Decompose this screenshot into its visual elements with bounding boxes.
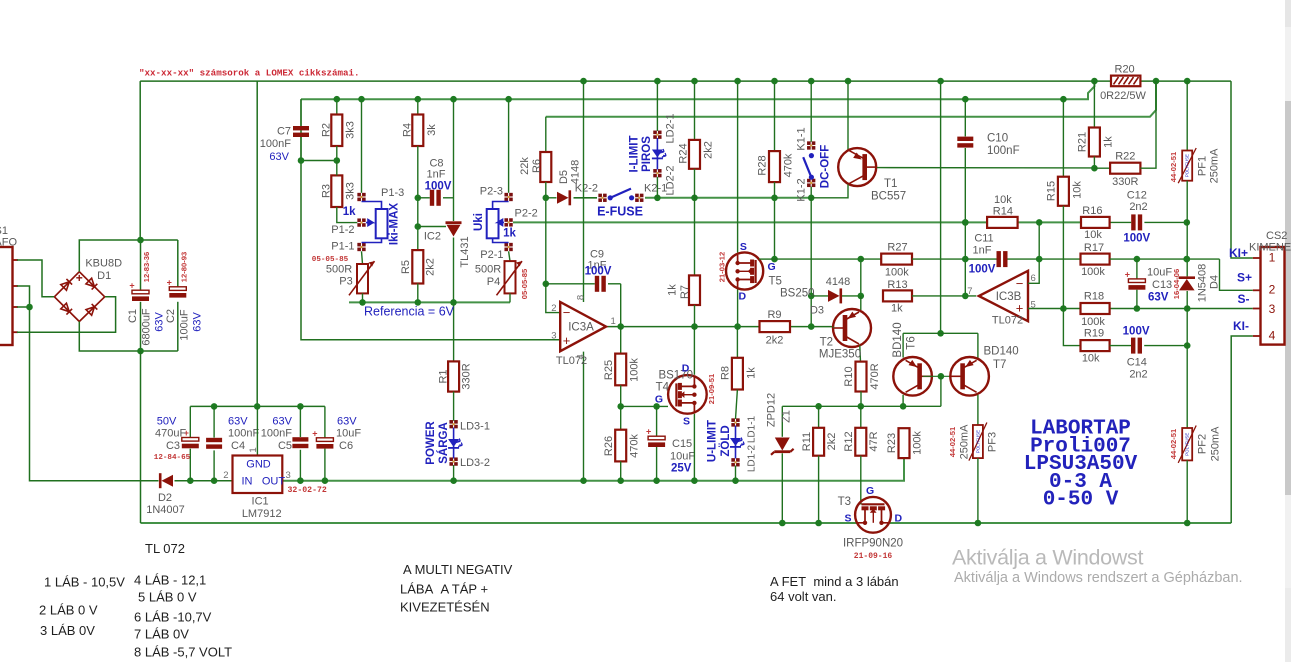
svg-text:KBU8D: KBU8D [85,258,122,270]
svg-text:500R: 500R [326,264,352,276]
svg-text:G: G [768,261,776,273]
svg-text:T1: T1 [884,178,897,190]
svg-text:3: 3 [551,331,556,342]
svg-text:R5: R5 [400,260,412,274]
svg-text:21-09-16: 21-09-16 [854,552,893,561]
svg-text:R19: R19 [1084,328,1104,340]
svg-text:21-09-51: 21-09-51 [707,373,716,404]
trimmer P4 500R [475,251,529,302]
svg-text:250mA: 250mA [1208,148,1220,184]
svg-text:IN: IN [242,476,253,488]
note FET 64 volt [770,574,899,604]
svg-text:T6: T6 [906,336,918,349]
wire top positive bus y=81 [140,81,1253,258]
resistor R18 100k [1081,291,1110,329]
capacitor C13 10uF [1125,259,1181,308]
svg-text:LÁBA A TÁP +: LÁBA A TÁP + [400,582,488,597]
svg-text:3: 3 [1269,302,1276,316]
note multi negativ [400,562,513,615]
capacitor C5 100nF [261,406,309,480]
svg-text:R17: R17 [1084,242,1104,254]
svg-text:T7: T7 [993,359,1006,371]
svg-text:32-02-72: 32-02-72 [288,486,327,495]
resistor R26 470k [603,385,641,484]
capacitor C14 2n2 [1123,326,1191,381]
svg-text:+: + [76,271,83,285]
svg-text:3 LÁB 0V: 3 LÁB 0V [40,623,95,638]
svg-text:7: 7 [967,286,972,297]
svg-text:3: 3 [286,470,291,481]
svg-text:R10: R10 [843,366,855,386]
svg-text:C12: C12 [1127,190,1147,202]
svg-text:PF2: PF2 [1196,434,1208,454]
svg-text:1 LÁB - 10,5V: 1 LÁB - 10,5V [44,575,125,590]
svg-text:A MULTI NEGATIV: A MULTI NEGATIV [403,562,513,577]
wire Uki line y=222.4 [513,221,1187,223]
svg-text:T2: T2 [820,337,833,349]
svg-text:100nF: 100nF [228,427,259,439]
svg-text:I-LIMIT: I-LIMIT [629,135,641,172]
svg-text:63V: 63V [153,312,165,332]
svg-text:C4: C4 [231,440,245,452]
svg-text:POLYFUSE: POLYFUSE [1185,154,1190,177]
capacitor C12 2n2 [1123,190,1190,245]
svg-text:100V: 100V [1123,326,1150,338]
svg-text:S+: S+ [1237,271,1252,285]
svg-text:R9: R9 [767,309,781,321]
svg-text:8 LÁB -5,7 VOLT: 8 LÁB -5,7 VOLT [134,645,232,660]
svg-text:Z1: Z1 [780,410,792,423]
capacitor C15 10uF [646,406,695,484]
svg-text:4: 4 [575,354,586,359]
svg-text:12-84-65: 12-84-65 [154,454,191,462]
svg-text:+: + [646,427,651,437]
svg-text:POWER: POWER [425,421,437,465]
note LOMEX red [139,68,360,79]
wire minus-12V rail y=480.7 [282,458,904,481]
svg-text:5 LÁB 0 V: 5 LÁB 0 V [138,590,197,605]
svg-text:IC3B: IC3B [996,291,1022,303]
svg-text:S: S [683,416,690,428]
svg-text:1k: 1k [666,284,678,296]
shunt regulator IC2 TL431 [418,96,471,306]
resistor R13 1k [883,279,976,315]
resistor R10 470R [843,362,881,407]
scrollbar track right edge [1285,0,1291,662]
wire CS1 pin3 junction to D2 line [17,304,159,481]
fuse PF3 250mA [948,423,998,527]
svg-text:P2-1: P2-1 [480,249,503,261]
svg-text:P1-3: P1-3 [381,187,404,199]
svg-text:6800uF: 6800uF [140,308,152,346]
svg-text:D3: D3 [810,305,824,317]
svg-text:R15: R15 [1045,181,1057,201]
wire reference rail [349,301,510,303]
svg-text:8: 8 [575,295,586,300]
svg-text:S: S [740,241,747,253]
svg-text:S-: S- [1238,292,1250,306]
zener Z1 ZPD12 [765,393,793,526]
capacitor C11 1nF [969,233,1081,276]
svg-text:LM7912: LM7912 [242,508,282,520]
svg-text:10uF: 10uF [336,427,361,439]
svg-text:P1-2: P1-2 [331,224,354,236]
diode D5 4148 [557,160,581,206]
wire negative drop x=140.5 [140,351,142,523]
svg-text:R11: R11 [801,432,813,451]
svg-text:LD3-2: LD3-2 [460,457,490,469]
svg-text:+: + [1125,269,1130,279]
potentiometer P1 1k Iki-MAX [312,187,404,264]
svg-text:KIMENET: KIMENET [1249,242,1291,254]
svg-text:2k2: 2k2 [766,335,784,347]
svg-text:100nF: 100nF [987,145,1020,157]
svg-text:R21: R21 [1076,132,1088,152]
svg-text:POLYFUSE: POLYFUSE [975,430,980,453]
svg-text:3k3: 3k3 [345,182,357,200]
wire IC1 GND riser x=257 [256,81,258,406]
wire P1 top feed [358,96,365,193]
svg-text:C14: C14 [1127,357,1147,369]
svg-text:1nF: 1nF [427,169,446,181]
svg-text:100k: 100k [1081,266,1105,278]
resistor R20 0R22/5W [1091,64,1190,103]
svg-text:Referencia = 6V: Referencia = 6V [364,305,455,319]
wire IC3B pin6 [1028,219,1042,283]
svg-text:47R: 47R [868,431,880,451]
svg-text:44-02-51: 44-02-51 [948,426,957,457]
svg-text:2 LÁB 0 V: 2 LÁB 0 V [39,603,98,618]
svg-text:R16: R16 [1082,205,1102,217]
wire AC input drop x=140 [139,81,141,240]
potentiometer P2 1k Uki [473,186,538,262]
svg-text:10k: 10k [994,194,1012,206]
resistor R12 47R [843,406,880,504]
wire T5 gate line [775,258,861,260]
svg-text:+: + [129,281,134,291]
svg-text:IC2: IC2 [424,231,441,243]
svg-text:63V: 63V [269,151,289,163]
svg-text:22k: 22k [519,157,531,175]
svg-text:1k: 1k [891,303,903,315]
svg-text:Aktiválja a Windowst: Aktiválja a Windowst [952,546,1143,570]
capacitor C2 100uF [165,252,204,341]
svg-text:BD140: BD140 [984,346,1019,358]
svg-text:Iki-MAX: Iki-MAX [389,203,401,246]
svg-text:10k: 10k [1071,181,1083,199]
resistor R14 10k [962,194,1018,228]
svg-text:2: 2 [551,303,556,314]
capacitor C9 1nF [546,249,621,327]
resistor R7 1k [666,198,700,330]
svg-text:LD2-2: LD2-2 [664,166,676,196]
transistor T3 IRFP90N20 [838,485,903,561]
svg-text:1: 1 [248,447,259,452]
svg-text:R6: R6 [531,159,543,173]
svg-text:100k: 100k [911,431,923,455]
wire E-FUSE line y=197.8 [546,197,811,199]
svg-text:P3: P3 [339,276,352,288]
wire CS1 pin1 to bridge AC1 [17,260,54,297]
svg-text:GND: GND [246,459,271,471]
svg-text:P2-3: P2-3 [480,186,503,198]
svg-text:1nF: 1nF [973,245,992,257]
resistor R17 100k [1081,242,1253,290]
svg-text:R28: R28 [756,155,768,175]
svg-text:100V: 100V [585,266,612,278]
svg-text:1k: 1k [1102,136,1114,148]
svg-text:6 LÁB -10,7V: 6 LÁB -10,7V [134,610,212,625]
svg-text:2n2: 2n2 [1129,369,1147,381]
svg-text:64 volt van.: 64 volt van. [770,589,837,604]
capacitor C10 100nF [957,96,1019,299]
resistor R27 100k [861,242,997,279]
svg-text:−: − [1016,276,1024,291]
transistor T5 BS250 [718,78,815,330]
wire CS1 pin2 [17,286,30,307]
resistor R16 10k [1081,205,1110,241]
svg-text:50V: 50V [157,416,177,428]
svg-text:R22: R22 [1115,151,1135,163]
svg-text:44-02-51: 44-02-51 [1169,428,1178,459]
svg-text:ZPD12: ZPD12 [765,393,777,427]
wire C3-C6 top rail [190,403,325,410]
transistor T6 BD140 [892,322,959,406]
resistor R4 3k [401,96,438,250]
svg-text:IRFP90N20: IRFP90N20 [843,538,903,550]
wire D2 to IC1 IN [175,477,233,484]
svg-text:470R: 470R [869,363,881,389]
svg-text:2: 2 [1269,283,1276,297]
resistor R24 2k2 [677,78,714,198]
LED LD3 POWER [425,392,490,484]
svg-text:10uF: 10uF [670,451,695,463]
svg-text:63V: 63V [191,312,203,332]
svg-text:+: + [312,428,317,438]
svg-text:05-05-85: 05-05-85 [520,268,529,299]
svg-text:PF3: PF3 [986,432,998,452]
svg-text:BS250: BS250 [780,288,815,300]
resistor R25 100k [603,327,641,386]
svg-text:2k2: 2k2 [702,141,714,159]
svg-text:S: S [844,513,851,525]
svg-text:63V: 63V [228,416,248,428]
op-amp IC3B TL072 [967,271,1036,327]
svg-text:C5: C5 [278,440,292,452]
svg-text:R2: R2 [320,123,332,137]
svg-text:4148: 4148 [569,160,581,184]
switch K2 E-FUSE [575,183,698,219]
wire bottom negative rail y=523 [141,522,1232,524]
svg-text:KI+: KI+ [1229,246,1248,260]
svg-text:1k: 1k [343,206,356,218]
svg-text:1N4007: 1N4007 [146,504,185,516]
svg-text:R26: R26 [603,436,615,456]
resistor R1 330R [438,302,473,391]
wire bridge minus rail y=351 [79,302,178,355]
label Referencia [364,305,455,319]
svg-text:16-04-06: 16-04-06 [1172,269,1181,299]
svg-text:R3: R3 [320,184,332,198]
svg-text:1k: 1k [503,228,516,240]
svg-text:4148: 4148 [826,276,850,288]
wire bus y=99 [301,81,1094,99]
svg-text:TL072: TL072 [992,315,1023,327]
svg-text:100V: 100V [1123,233,1150,245]
capacitor C3 470uF [154,406,199,480]
svg-text:R25: R25 [603,360,615,380]
capacitor C8 1nF [418,158,454,206]
svg-text:+: + [167,277,172,287]
svg-text:R13: R13 [887,279,907,291]
svg-text:470k: 470k [628,434,640,458]
diode D4 1N5408 [1179,222,1221,345]
svg-text:D: D [682,363,690,375]
svg-text:TL 072: TL 072 [145,541,185,556]
resistor R23 100k [886,428,924,458]
svg-text:1: 1 [611,316,616,327]
svg-text:470uF: 470uF [155,427,186,439]
wire inv input column [543,195,561,313]
svg-text:12-83-36: 12-83-36 [142,252,151,282]
svg-text:R24: R24 [677,143,689,163]
svg-text:LD1-1: LD1-1 [747,415,758,443]
svg-text:3k: 3k [426,124,438,136]
regulator IC1 LM7912 [223,406,327,520]
wire S- line [1028,305,1253,312]
svg-text:G: G [866,485,874,497]
svg-text:470k: 470k [782,153,794,177]
svg-text:T5: T5 [769,276,782,288]
svg-text:P4: P4 [487,276,500,288]
svg-text:POLYFUSE: POLYFUSE [1185,433,1190,456]
svg-text:SÁRGA: SÁRGA [437,422,450,464]
switch K1 DC-OFF [795,78,831,202]
resistor R5 2k2 [400,250,437,306]
svg-text:330R: 330R [1112,176,1138,188]
wire P2 top feed [505,96,512,193]
svg-text:4: 4 [1269,329,1276,343]
svg-text:R18: R18 [1084,291,1104,303]
svg-text:−: − [563,305,571,320]
capacitor C1 6800uF [127,252,166,346]
svg-text:330R: 330R [461,363,473,389]
wire IC3A plus input from x=301 [301,99,560,340]
svg-text:R4: R4 [401,123,413,137]
svg-text:10k: 10k [1082,353,1100,365]
svg-text:1k: 1k [745,367,757,379]
svg-text:44-02-51: 44-02-51 [1169,151,1178,182]
svg-text:G: G [655,394,663,406]
svg-text:LD1-2: LD1-2 [747,444,758,472]
svg-text:CS1: CS1 [0,225,8,237]
fuse PF1 250mA [1169,81,1220,222]
svg-text:100k: 100k [885,267,909,279]
svg-text:LD3-1: LD3-1 [460,421,490,433]
wire bridge plus to C1 C2 top [79,237,178,290]
transistor T1 BC557 [812,78,1094,203]
svg-text:BD140: BD140 [892,322,904,357]
svg-text:25V: 25V [671,463,692,475]
svg-text:0-50 V: 0-50 V [1043,489,1119,512]
svg-text:R14: R14 [993,206,1013,218]
capacitor C4 100nF [206,406,259,480]
svg-text:10k: 10k [1084,229,1102,241]
diode D3 4148 [810,276,861,317]
svg-text:K2-2: K2-2 [575,183,598,195]
wire sense line y=116.7 [546,81,1156,117]
svg-text:C10: C10 [987,133,1008,145]
svg-text:C15: C15 [672,438,692,450]
resistor R19 10k [1063,309,1131,365]
resistor R2 3k3 [320,96,356,164]
wire gate line T4 [621,403,668,410]
svg-text:C1: C1 [127,309,139,323]
svg-text:R8: R8 [719,366,731,380]
resistor R28 470k [756,78,794,263]
svg-text:R7: R7 [679,285,691,299]
svg-text:"xx-xx-xx" számsorok a LOMEX c: "xx-xx-xx" számsorok a LOMEX cikkszámai. [139,68,360,79]
svg-text:2: 2 [223,470,228,481]
svg-text:A FET mind a 3 lábán: A FET mind a 3 lábán [770,574,899,589]
svg-text:250mA: 250mA [1209,426,1221,462]
resistor R8 1k [719,327,757,390]
wire K1 node down to D3/R9 [808,198,815,330]
svg-text:1N5408: 1N5408 [1196,264,1208,303]
svg-text:R23: R23 [886,433,898,453]
svg-text:D: D [739,291,747,303]
svg-text:CS2: CS2 [1266,230,1287,242]
svg-text:R20: R20 [1115,64,1135,76]
wire limit node y=406.3 [782,403,941,410]
svg-text:100V: 100V [425,181,452,193]
op-amp IC3A TL072 [551,78,624,484]
svg-text:T4: T4 [656,382,670,394]
svg-text:PIROS: PIROS [641,136,653,172]
svg-text:3k3: 3k3 [345,121,357,139]
svg-text:OUT: OUT [262,476,286,488]
svg-text:7 LÁB 0V: 7 LÁB 0V [134,627,189,642]
connector CS2 KIMENET [1229,230,1291,345]
svg-text:R12: R12 [843,431,855,451]
svg-text:10uF: 10uF [1147,267,1172,279]
connector CS1 TRAFO [0,225,18,345]
svg-text:TL431: TL431 [459,236,471,267]
svg-text:R1: R1 [438,369,450,383]
resistor R9 2k2 [760,309,791,347]
label LABORTAP block [1024,418,1138,512]
LED LD1 U-LIMIT [707,390,758,485]
resistor R11 2k2 [801,406,838,526]
diode D2 1N4007 [146,473,185,516]
svg-text:K1-1: K1-1 [795,127,807,150]
svg-text:D2: D2 [158,492,172,504]
svg-text:100k: 100k [1081,316,1105,328]
svg-text:100V: 100V [969,264,996,276]
svg-text:K1-2: K1-2 [795,178,807,201]
svg-text:C7: C7 [277,126,291,138]
svg-text:D4: D4 [1208,275,1220,289]
svg-text:IC3A: IC3A [568,322,594,334]
svg-text:63V: 63V [337,416,357,428]
svg-text:LD2-1: LD2-1 [664,114,676,144]
transistor T4 BS170 [655,327,716,484]
svg-text:R27: R27 [887,242,907,254]
wire output line IC3A y=326.6 [606,326,834,328]
svg-text:100uF: 100uF [178,309,190,340]
svg-text:Uki: Uki [473,213,485,231]
trimmer P3 500R [326,251,375,305]
